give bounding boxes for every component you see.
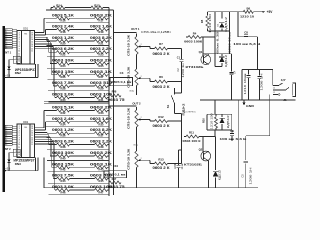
wire bit row 2 from latch pin to R36/R37 and bus [47, 132, 56, 134]
svg-text:С5: С5 [241, 174, 245, 178]
transistor VT1 KT3102 [201, 55, 211, 65]
wire bit row 4 from latch pin to R40/R41 and bus [50, 155, 56, 157]
svg-text:(СТЕРЕО): (СТЕРЕО) [186, 112, 196, 114]
jack J1 body bracket [292, 84, 294, 96]
wire +5V feed (top) to DD1 supply pins [11, 77, 38, 79]
svg-text:КТ3102Б: КТ3102Б [184, 163, 203, 167]
wire jack tip feed [272, 70, 274, 86]
svg-text:2: 2 [141, 76, 142, 78]
wire jack sleeve to rail [268, 90, 270, 100]
svg-text:R20: R20 [61, 41, 66, 45]
svg-text:0603 1K: 0603 1K [90, 70, 113, 74]
svg-text:11: 11 [31, 144, 33, 146]
wire row separator 2 [47, 137, 110, 139]
svg-text:0603 7.5K: 0603 7.5K [52, 174, 75, 178]
svg-text:КД512: КД512 [217, 169, 221, 180]
junction dot row 2 at bus [108, 133, 109, 134]
wire OUT1 to trimpot R1 [114, 32, 137, 34]
svg-text:Q2: Q2 [199, 147, 203, 151]
svg-text:S1: S1 [166, 104, 170, 108]
wire bit row 7 from latch pin to R46/R47 and bus [55, 189, 57, 191]
junction dot row 6 at bus [108, 85, 109, 86]
svg-text:3,5′: 3,5′ [281, 78, 286, 82]
wire bit row 5 from latch pin to R26/R27 and bus [52, 74, 57, 76]
wire +5V rail top [207, 11, 243, 13]
pull-up network box and supply diode VD, +5V arrow (top) [13, 56, 20, 63]
svg-text:8: 8 [6, 144, 7, 146]
svg-text:R48: R48 [112, 90, 117, 94]
svg-text:R23: R23 [99, 53, 104, 57]
connector XP1 data pins D0-D7 (top group) with stub wires [5, 29, 12, 31]
svg-text:DN2: DN2 [15, 71, 21, 75]
wire VT2 emitter to gnd [208, 161, 210, 188]
wire between bottom trimpots [136, 130, 138, 148]
wire VT1 collector to rail [208, 53, 210, 56]
trimpot R2 SP3-19a 3.3K (vertical) [136, 66, 138, 69]
svg-text:1206 1н: 1206 1н [182, 62, 185, 77]
svg-text:10: 10 [18, 51, 20, 53]
wire mid rail top [203, 53, 232, 55]
wire bit row 2 from latch pin to R20/R21 and bus [47, 40, 56, 42]
switch S1 contact [174, 88, 176, 94]
svg-text:R35: R35 [99, 122, 104, 126]
svg-text:R33: R33 [99, 111, 104, 115]
svg-text:1210 10: 1210 10 [240, 14, 255, 18]
wire row separator 4 [47, 160, 109, 162]
wire row separator 4 [47, 67, 109, 69]
wire channel-1 node to switch [175, 92, 182, 94]
diode VD1 KD522 (vertical) [221, 12, 223, 19]
IC DD1 latch (DIP-20) [17, 31, 35, 65]
svg-text:RG: RG [24, 127, 27, 129]
wire mid vertical 2 [238, 100, 240, 188]
wire OUT2 to trimpot R2 [109, 105, 137, 107]
svg-text:ОБЩ: ОБЩ [133, 144, 138, 146]
svg-text:0603 6.2K: 0603 6.2K [52, 140, 75, 144]
svg-text:0603 100К: 0603 100К [184, 39, 202, 43]
wire R4 to node [201, 36, 215, 38]
svg-text:R36: R36 [61, 134, 66, 138]
jack J1 tip contact [273, 85, 279, 87]
wire R10/VD3 node bottom [207, 129, 232, 131]
wire R10/VD3 top [207, 113, 232, 115]
capacitor CB 1206 1N (vertical) [259, 70, 261, 76]
svg-text:1210 150: 1210 150 [209, 113, 213, 130]
svg-text:0603 1.2K: 0603 1.2K [52, 128, 75, 132]
svg-text:R4: R4 [193, 31, 197, 35]
trimpot R3 SP3-19a 3.3K (vertical) [136, 148, 138, 151]
junction dot row 1 at bus [108, 121, 109, 122]
svg-text:0603 2K: 0603 2K [90, 59, 113, 63]
wire bit row 7 from latch pin to R30/R31 and bus [55, 96, 57, 98]
svg-text:КД512: КД512 [226, 115, 230, 129]
svg-text:0603 6.2K: 0603 6.2K [52, 47, 75, 51]
wire switch to channel-2 node [175, 113, 182, 115]
svg-text:1210 150: 1210 150 [208, 13, 212, 33]
junction dot row 0 at bus [108, 110, 109, 111]
capacitor C11 1206 10uF output (vertical) [178, 150, 180, 165]
svg-text:0603 1K: 0603 1K [90, 162, 113, 166]
svg-text:R29: R29 [99, 87, 104, 91]
svg-text:1206 1Н: 1206 1Н [249, 167, 253, 184]
svg-text:100 мк 6,3 В: 100 мк 6,3 В [233, 42, 260, 46]
svg-text:DD1: DD1 [23, 27, 29, 30]
wire row separator 3 [47, 56, 109, 58]
wire row separator 5 [48, 78, 109, 80]
diode VD3 KD522 (vertical) [221, 114, 223, 117]
wire R2 bottom to common [136, 89, 138, 96]
capacitor CA 1210 10uF (vertical) [248, 70, 250, 75]
diode VD4 KD522 (vertical) [215, 137, 217, 170]
junction dot row 7 at bus [108, 97, 109, 98]
svg-text:DD2: DD2 [23, 121, 29, 124]
svg-text:ПД9-2: ПД9-2 [181, 103, 185, 115]
wire bit row 3 from latch pin to R38/R39 and bus [49, 144, 57, 146]
svg-text:+5 В: +5 В [5, 168, 10, 171]
wire row separator 0 [46, 22, 109, 24]
connector XP1 DB25 body bar [3, 26, 5, 192]
svg-text:R11: R11 [189, 131, 194, 135]
svg-text:0603 15K: 0603 15K [52, 70, 75, 74]
svg-text:0603 7.5K: 0603 7.5K [52, 81, 75, 85]
wire trimpot R2 wiper to R6 [144, 77, 150, 79]
svg-text:C10: C10 [113, 164, 119, 168]
svg-text:R44: R44 [61, 179, 66, 183]
svg-text:+5V: +5V [267, 10, 274, 14]
svg-text:0603 75: 0603 75 [108, 98, 125, 102]
transistor VT2 KT3102 [201, 151, 211, 161]
wire trimpot R3 wiper to R13 [144, 159, 150, 161]
wire bit row 0 from latch pin to R16/R17 and bus [44, 17, 57, 19]
svg-text:0603 30K: 0603 30K [52, 151, 75, 155]
wire +5V feed (bottom) to DD2 supply pins [11, 170, 38, 172]
wire GND rail from DD2 to output stage [43, 158, 45, 188]
IC DD2 latch (DIP-20) [17, 124, 35, 158]
svg-text:СПЗ-19 3,3К: СПЗ-19 3,3К [127, 149, 131, 170]
svg-text:R32: R32 [61, 111, 66, 115]
wire row separator 7 [48, 194, 109, 196]
svg-text:КД512: КД512 [224, 54, 228, 67]
svg-text:R16: R16 [61, 19, 66, 23]
svg-text:0603 2 К: 0603 2 К [153, 124, 170, 128]
wire trimpot R1 wiper to R7 [144, 46, 150, 48]
wire vertical right branch [228, 12, 230, 31]
svg-text:КТ3102Б: КТ3102Б [186, 65, 205, 69]
svg-text:2: 2 [141, 44, 142, 46]
wire bit row 5 from latch pin to R42/R43 and bus [52, 166, 57, 168]
wire row separator 1 [46, 33, 109, 35]
svg-text:В6: В6 [246, 6, 250, 10]
jack J1 sleeve contact [273, 94, 278, 96]
svg-text:КД512: КД512 [224, 16, 228, 32]
wire R10 box sides [206, 114, 208, 130]
svg-text:8: 8 [6, 48, 7, 50]
junction dot row 3 at bus [108, 52, 109, 53]
wire row separator 0 [46, 114, 109, 116]
svg-text:68мк 6,3В: 68мк 6,3В [215, 31, 219, 54]
wire bit row 0 from latch pin to R32/R33 and bus [44, 110, 57, 112]
svg-text:0603 2K: 0603 2K [90, 13, 113, 17]
svg-text:ОUТ 1: ОUТ 1 [131, 27, 140, 31]
wire bit row 4 from latch pin to R24/R25 and bus [50, 63, 56, 65]
connector XP1 data pins (bottom group) with stub wires [5, 125, 12, 127]
wire R6 to channel-1 node [168, 81, 182, 83]
svg-text:C3: C3 [120, 71, 124, 75]
wire bit row 1 from latch pin to R34/R35 and bus [46, 121, 57, 123]
svg-text:R24: R24 [61, 64, 66, 68]
pull-up network box and supply diode VD, +5V arrow (bottom) [13, 149, 20, 156]
wire vertical mid branch [214, 12, 216, 31]
capacitor C5 1206 1N (vertical) [245, 136, 247, 160]
svg-text:R13: R13 [158, 157, 164, 161]
wire row separator 6 [48, 90, 109, 92]
svg-text:R10: R10 [201, 118, 205, 123]
svg-text:10: 10 [18, 144, 20, 146]
svg-text:R37: R37 [99, 134, 104, 138]
svg-text:СПЗ-19 3,3К: СПЗ-19 3,3К [127, 35, 131, 56]
svg-text:12: 12 [273, 88, 275, 90]
svg-text:0603 75: 0603 75 [108, 185, 125, 189]
resistor R5 1210 150 (vertical) [206, 12, 208, 16]
svg-text:R28: R28 [61, 87, 66, 91]
svg-text:R47: R47 [112, 177, 117, 181]
trimpot R2 SP3-19a 3.3K (vertical) [136, 107, 138, 110]
svg-text:CNT 2: CNT 2 [3, 147, 11, 151]
svg-text:R40: R40 [61, 156, 66, 160]
svg-text:R42: R42 [61, 168, 66, 172]
svg-text:0603 3.0K: 0603 3.0K [52, 92, 75, 96]
svg-text:0805 0,1 мк: 0805 0,1 мк [105, 174, 126, 177]
wire top bank boundary [46, 9, 114, 11]
wire cap band vertical [241, 70, 243, 101]
svg-text:RG: RG [24, 34, 27, 36]
svg-text:ОUТ 2: ОUТ 2 [132, 101, 141, 105]
svg-text:1206 1Н: 1206 1Н [260, 73, 264, 90]
svg-text:0603 3.0K: 0603 3.0K [52, 185, 75, 189]
wire R12 to channel-2 node [168, 120, 182, 122]
junction dot row 4 at bus [108, 63, 109, 64]
wire C8 distribution [237, 12, 239, 37]
junction dot row 1 at bus [108, 29, 109, 30]
wire coupling node [257, 37, 259, 70]
+5V arrow label [253, 11, 262, 13]
wire row separator 2 [47, 45, 110, 47]
wire bit row 6 from latch pin to R28/R29 and bus [53, 85, 56, 87]
wire trimpot wiper to R12 [144, 119, 150, 121]
svg-text:R39: R39 [99, 145, 104, 149]
svg-text:R47: R47 [99, 190, 104, 194]
svg-text:GND: GND [246, 104, 255, 108]
svg-text:Q1: Q1 [199, 50, 203, 54]
wire cap band horizontal [242, 69, 273, 71]
svg-text:14: 14 [18, 60, 20, 62]
junction dot row 5 at bus [108, 74, 109, 75]
svg-text:12: 12 [273, 92, 275, 94]
svg-text:R43: R43 [99, 168, 104, 172]
capacitor C4 (vertical) [231, 54, 233, 72]
svg-text:11: 11 [31, 51, 33, 53]
svg-text:ОБЩ: ОБЩ [129, 91, 134, 93]
svg-text:0603 15K: 0603 15K [52, 162, 75, 166]
svg-text:R5: R5 [200, 19, 204, 23]
wire summing bus (vertical) [108, 8, 110, 197]
diode VD2 KD522 (vertical) [221, 54, 223, 56]
svg-text:R12: R12 [158, 115, 164, 119]
svg-text:R19: R19 [99, 30, 104, 34]
trimpot R1 SP3-19a 3.3K (vertical) [136, 34, 138, 37]
svg-text:R17: R17 [99, 19, 104, 23]
svg-text:0603 2 К: 0603 2 К [153, 166, 170, 170]
svg-text:0603 2K: 0603 2K [90, 151, 113, 155]
svg-text:R34: R34 [61, 122, 66, 126]
svg-text:2: 2 [141, 158, 142, 160]
wire bit row 6 from latch pin to R44/R45 and bus [53, 178, 56, 180]
svg-text:0603 30K: 0603 30K [52, 59, 75, 63]
wire row separator 3 [47, 148, 109, 150]
svg-text:0603 100 К: 0603 100 К [183, 139, 201, 143]
wire node to R10/VD3 [214, 100, 216, 114]
svg-text:СПЗ-19а-0,125Вт: СПЗ-19а-0,125Вт [141, 31, 172, 34]
wire jack return loop [269, 100, 271, 136]
svg-text:J1: J1 [283, 98, 287, 102]
svg-text:1210 10мк: 1210 10мк [243, 72, 247, 94]
svg-text:СПЗ-19 3,3К: СПЗ-19 3,3К [127, 108, 131, 129]
wire OUT1 tap bus (second bus line) [113, 10, 115, 195]
jack J1 ring contact [273, 89, 286, 91]
wire top mixing row [51, 7, 53, 9]
junction dot row 0 at bus [108, 18, 109, 19]
svg-text:CNT 1: CNT 1 [3, 50, 11, 54]
svg-text:100 мк 6,3 В: 100 мк 6,3 В [220, 137, 247, 141]
junction dot row 6 at bus [108, 178, 109, 179]
junction dot row 4 at bus [108, 155, 109, 156]
svg-text:0603 5.1K: 0603 5.1K [52, 106, 75, 110]
svg-text:R38: R38 [61, 145, 66, 149]
wire bank divider lower [44, 103, 109, 105]
ground symbol GND [243, 100, 245, 103]
wire VD2 bottom stub [214, 54, 216, 67]
svg-text:R18: R18 [61, 30, 66, 34]
wire R3 bottom to gnd rail [136, 171, 138, 188]
svg-text:+5 В: +5 В [5, 75, 10, 78]
svg-text:0603 2.4K: 0603 2.4K [52, 117, 75, 121]
svg-text:0603 5.1K: 0603 5.1K [52, 13, 75, 17]
svg-text:1206: 1206 [174, 163, 177, 169]
svg-text:0603 1.2K: 0603 1.2K [52, 36, 75, 40]
wire R7 to channel-1 node [168, 48, 182, 50]
svg-text:R41: R41 [99, 156, 104, 160]
wire R11 left to VT2 base [184, 136, 186, 138]
capacitor C1 1206 coupling (vertical) [181, 49, 183, 59]
svg-text:0603 2 К: 0603 2 К [153, 85, 170, 89]
wire between R1 and R2 [136, 58, 138, 67]
wire R11 right to node [199, 136, 215, 138]
svg-text:R26: R26 [61, 75, 66, 79]
svg-text:0603 2 К: 0603 2 К [153, 52, 170, 56]
wire row separator 7 [48, 101, 109, 103]
svg-text:R22: R22 [61, 53, 66, 57]
wire row separator 6 [48, 182, 109, 184]
wire bit row 3 from latch pin to R22/R23 and bus [49, 51, 57, 53]
wire output rail (mid) [200, 99, 296, 101]
svg-text:R7: R7 [159, 42, 163, 46]
svg-text:СПЗ-19 3,3К: СПЗ-19 3,3К [127, 67, 131, 88]
svg-text:0603 2.4K: 0603 2.4K [52, 25, 75, 29]
junction dot row 2 at bus [108, 40, 109, 41]
svg-text:R27: R27 [99, 75, 104, 79]
wire row separator 5 [48, 171, 109, 173]
wire bank divider upper [44, 100, 109, 102]
wire row separator 1 [46, 125, 109, 127]
svg-text:R46: R46 [61, 190, 66, 194]
svg-text:R45: R45 [99, 179, 104, 183]
svg-text:R6: R6 [159, 75, 163, 79]
svg-text:2: 2 [141, 117, 142, 119]
wire bit row 1 from latch pin to R18/R19 and bus [46, 29, 57, 31]
wire R13 to channel-2 node [168, 163, 182, 165]
wire R5/VD1 node [207, 30, 229, 32]
junction dot row 5 at bus [108, 167, 109, 168]
svg-text:14: 14 [18, 154, 20, 156]
junction dot row 7 at bus [108, 189, 109, 190]
svg-text:DN3: DN3 [15, 162, 21, 166]
resistor R10 1210 150 (vertical) [215, 114, 217, 116]
junction dot row 3 at bus [108, 144, 109, 145]
svg-text:R21: R21 [99, 41, 104, 45]
svg-text:С8: С8 [244, 30, 248, 34]
svg-text:С2: С2 [176, 68, 180, 72]
svg-text:R25: R25 [99, 64, 104, 68]
wire R4 to Q1 base [186, 36, 188, 38]
